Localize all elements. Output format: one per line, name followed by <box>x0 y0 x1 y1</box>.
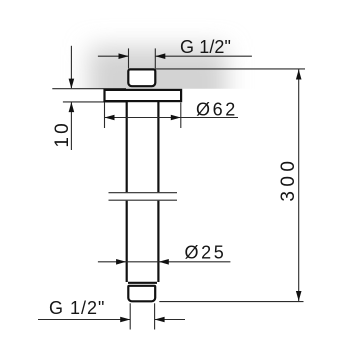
svg-text:Ø25: Ø25 <box>185 242 227 262</box>
top thread nipple G 1/2 <box>128 69 155 86</box>
svg-text:G 1/2": G 1/2" <box>180 37 231 57</box>
label 10 (rotated) <box>52 120 73 148</box>
svg-text:300: 300 <box>278 157 299 202</box>
dimension G 1/2 top: extension lines <box>129 48 156 68</box>
label Ø62 <box>196 99 238 119</box>
dimension G 1/2 bottom: extension lines <box>130 303 154 329</box>
tube upper segment <box>127 102 159 193</box>
label G 1/2 (top) <box>180 37 231 57</box>
label 300 (rotated) <box>278 157 299 202</box>
svg-text:10: 10 <box>52 120 73 148</box>
dimension 10: upper line with down arrow <box>70 46 72 88</box>
bottom thread G 1/2 <box>128 286 155 302</box>
dimension 300: bottom extension line <box>159 301 303 303</box>
dimension Ø25: dimension line with arrows <box>98 261 231 263</box>
dimension 300: top extension line <box>155 68 305 70</box>
dimension 10: lower line with up arrow <box>70 103 72 151</box>
label G 1/2 (bottom) <box>49 298 105 318</box>
ceiling shading <box>89 47 226 120</box>
svg-text:G 1/2": G 1/2" <box>49 298 105 318</box>
label Ø25 <box>185 242 227 262</box>
dimension Ø62: dimension line with arrows <box>105 117 239 119</box>
dimension Ø62: extension lines <box>105 103 181 129</box>
dimension G 1/2 bottom: dimension line with arrows <box>38 319 185 321</box>
dimension G 1/2 top: dimension line with arrows <box>98 55 252 57</box>
dimension extension line: flange top (10 dim) <box>52 88 126 90</box>
break lines <box>109 193 178 201</box>
ceiling flange escutcheon Ø62 <box>105 90 182 101</box>
tube lower segment <box>127 201 159 283</box>
svg-text:Ø62: Ø62 <box>196 99 238 119</box>
dimension 300: vertical dimension line with arrows <box>298 70 300 302</box>
dimension extension line: flange bottom (10 dim) <box>63 101 126 103</box>
